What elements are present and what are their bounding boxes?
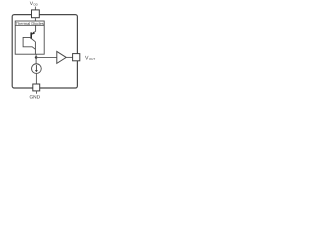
- pin VDD (pad square on top edge): [32, 10, 40, 18]
- pin VOUT (pad square on right edge): [73, 54, 80, 61]
- Thermal Diodes title separator: [15, 24, 44, 26]
- svg-text:OUT: OUT: [89, 57, 95, 61]
- wire buffer output to VOUT pin: [66, 56, 72, 58]
- chip outline: [12, 15, 77, 88]
- pin GND (pad square on bottom edge): [33, 84, 40, 91]
- node VDD label: [30, 1, 38, 7]
- emitter diagonal with arrow into base: [32, 31, 36, 34]
- wire VDD pin to thermal diodes box: [34, 18, 36, 21]
- emitter wire from title line: [35, 25, 37, 31]
- collector wire down: [34, 42, 36, 54]
- svg-text:Thermal Diodes: Thermal Diodes: [16, 21, 44, 26]
- transistor Q1 (diode-connected PNP): [23, 25, 35, 54]
- wire junction to buffer input: [36, 56, 57, 58]
- wire GND pin to label: [36, 91, 38, 94]
- collector diagonal: [31, 39, 35, 42]
- svg-text:GND: GND: [29, 94, 40, 100]
- node junction dot: [35, 56, 38, 59]
- op-amp buffer U1: [57, 51, 66, 63]
- node VOUT label: [85, 56, 95, 62]
- wire VDD label to pin: [34, 7, 36, 10]
- base bar: [30, 32, 32, 38]
- wire collector out of box to junction: [35, 54, 37, 64]
- base-collector short loop: [23, 37, 35, 49]
- current source I1: [32, 64, 42, 74]
- svg-text:DD: DD: [34, 3, 38, 7]
- Thermal Diodes block box: [15, 21, 44, 54]
- wire current source to GND pin: [35, 73, 37, 84]
